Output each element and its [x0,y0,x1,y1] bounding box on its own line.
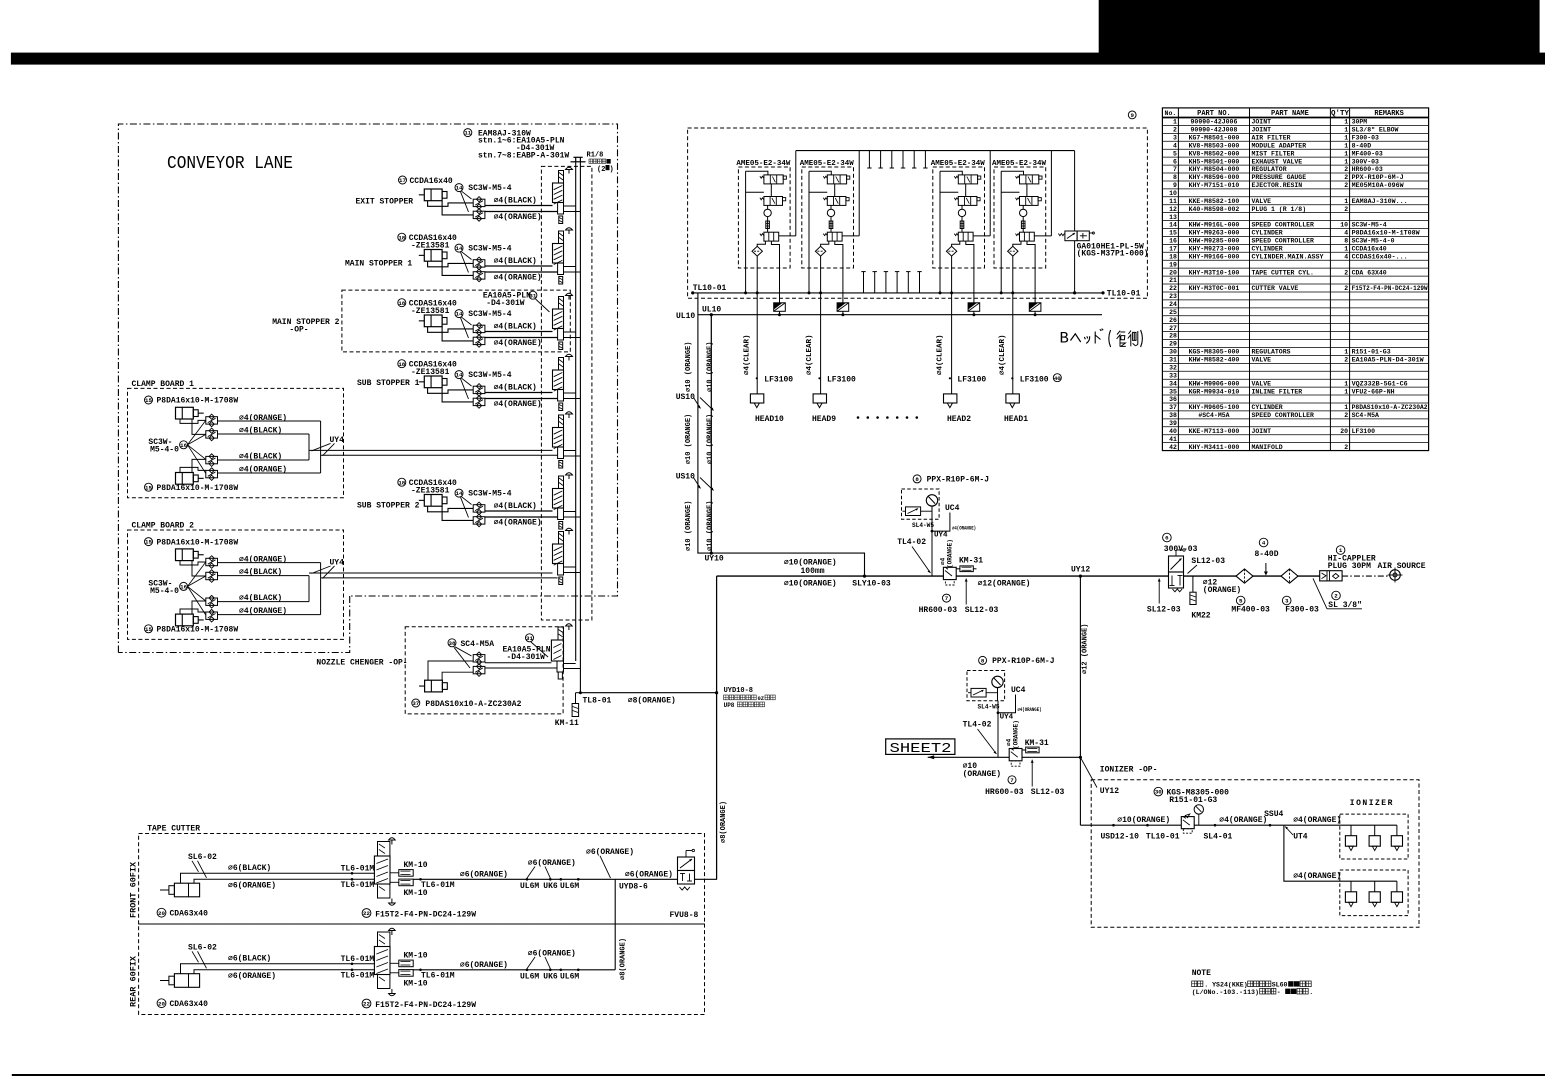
check square silencer [837,303,849,312]
port to supply B [564,572,581,574]
svg-text:40: 40 [1169,428,1177,435]
ejector output to rail riser [1034,235,1051,237]
ejector supply line [1001,171,1023,175]
svg-text:-: - [1277,989,1281,996]
wire UT4 branch down [1284,825,1397,881]
balloon 14 SC3W-M5-4 [455,184,463,192]
clamp cylinder top [176,407,194,419]
svg-text:SC4-M5A: SC4-M5A [461,640,495,649]
svg-text:MANIFOLD: MANIFOLD [1252,444,1283,451]
ejector output to rail riser [779,235,796,237]
svg-text:∅4(ORANGE): ∅4(ORANGE) [494,273,542,282]
ejector AME05-E2-34W dashed box [738,167,790,268]
svg-text:∅4(CLEAR): ∅4(CLEAR) [806,334,814,375]
svg-text:M5-4-0: M5-4-0 [150,445,179,454]
wire #4(ORANGE) [485,398,558,400]
vacuum break valve [764,232,779,241]
cutter valve body [374,947,390,975]
pressure gauge [926,495,937,506]
svg-text:UL10: UL10 [676,312,695,321]
svg-text:24: 24 [1169,301,1177,308]
wire #4(BLACK) bottom [218,459,310,461]
wire vacuum drop to head [1012,256,1014,394]
svg-text:UY10: UY10 [705,555,724,564]
svg-text:31: 31 [1169,357,1177,364]
balloon 7 HR600-03 [943,594,951,602]
svg-text:KM-10: KM-10 [404,889,428,898]
valve lower block [558,564,564,576]
air filter F300-03 [1281,569,1298,583]
svg-text:21: 21 [1169,277,1177,284]
balloon 7 HR600-03 (2) [1008,776,1016,784]
cutter valve lower [378,884,390,898]
svg-text:FVU8-8: FVU8-8 [670,911,699,920]
speed controller pair [473,325,485,332]
svg-text:8-40D: 8-40D [1352,142,1372,149]
svg-text:13: 13 [1169,214,1177,221]
svg-text:JOINT: JOINT [1252,127,1272,134]
svg-text:VALVE: VALVE [1252,198,1272,205]
svg-text:8: 8 [915,476,919,483]
rail riser [795,151,797,236]
clamp board 1 dashed box [128,388,344,497]
svg-text:2: 2 [1344,174,1348,181]
wire #6(BLACK) [205,872,374,874]
svg-text:CYLINDER.MAIN.ASSY: CYLINDER.MAIN.ASSY [1252,253,1324,260]
clamp cylinder port wires [180,419,206,423]
svg-text:3: 3 [1173,134,1177,141]
svg-text:∅4(BLACK): ∅4(BLACK) [239,594,282,603]
check diamond [952,241,960,246]
cylinder P8DAS10x10 (nozzle) [425,680,443,692]
svg-text:1: 1 [1344,119,1348,126]
svg-text:15: 15 [1169,230,1177,237]
speed controller pair [473,260,485,267]
bus UL10 [698,314,1102,316]
svg-text:∅4(ORANGE): ∅4(ORANGE) [494,400,542,409]
svg-text:TL10-01: TL10-01 [1107,289,1141,298]
svg-text:∅10 (ORANGE): ∅10 (ORANGE) [707,414,715,464]
silencer KM-10 a [390,962,399,964]
svg-text:(ORANGE): (ORANGE) [1203,586,1241,595]
svg-text:LF3100: LF3100 [764,375,793,384]
ejector filter [766,221,770,229]
vacuum generator [961,205,963,232]
nozzle valve ports to supply [564,663,576,665]
svg-text:UK6: UK6 [543,972,558,981]
svg-text:CDA 63X40: CDA 63X40 [1352,269,1387,276]
svg-text:AME05-E2-34W: AME05-E2-34W [992,160,1047,168]
svg-text:1: 1 [1344,150,1348,157]
svg-text:KHY-M9166-000: KHY-M9166-000 [1189,253,1240,260]
balloon 11 EAM8AJ-310W label block [464,129,472,137]
ejector AME05-E2-34W dashed box [933,167,985,268]
rail riser [989,151,991,236]
svg-text:1: 1 [1344,388,1348,395]
svg-text:KGR-M9934-010: KGR-M9934-010 [1189,388,1240,395]
wire UY12 diagonal [1080,757,1097,787]
svg-text:2: 2 [1344,206,1348,213]
balloon 14 SC3W-M5-4 [455,310,463,318]
svg-text:TL4-02: TL4-02 [897,538,926,547]
wire #4(BLACK) bottom [218,601,310,603]
svg-text:M5-4-0: M5-4-0 [150,587,179,596]
svg-text:15: 15 [145,539,152,546]
pressure gauge dashed box [902,489,940,519]
wire gauge to bus [931,519,933,576]
svg-text:36: 36 [1169,396,1177,403]
wire #4(ORANGE) [485,271,558,273]
wire UC4 branch [932,513,950,532]
svg-text:US10: US10 [676,393,695,402]
svg-text:MAIN STOPPER 1: MAIN STOPPER 1 [345,260,412,269]
balloon 8 PPX-R10P-6M-J [913,475,921,483]
svg-text:PRESSURE GAUGE: PRESSURE GAUGE [1252,174,1307,181]
svg-text:UL10: UL10 [702,306,721,315]
svg-text:F15T2-F4-PN-DC24-129W: F15T2-F4-PN-DC24-129W [375,910,476,919]
svg-text:): ) [610,166,614,174]
svg-text:HEAD1: HEAD1 [1004,415,1028,424]
svg-text:HR600-03: HR600-03 [985,788,1024,797]
svg-text:-ZE13581: -ZE13581 [411,307,450,316]
svg-text:300V-03: 300V-03 [1164,545,1198,554]
balloon 5 MF400-03 [1236,596,1245,605]
joint LF3100 tick [1011,377,1013,379]
tape cutter cylinder CDA63x40 (front) [174,883,199,897]
svg-text:KM-11: KM-11 [555,719,579,728]
svg-text:. YS24(KKE): . YS24(KKE) [1204,982,1248,989]
svg-text:∅4(BLACK): ∅4(BLACK) [494,257,537,266]
svg-text:R151-01-G3: R151-01-G3 [1352,349,1391,356]
svg-text:∅4(ORANGE): ∅4(ORANGE) [239,607,287,616]
svg-text:SL6-02: SL6-02 [188,943,217,952]
svg-text:AME05-E2-34W: AME05-E2-34W [800,160,855,168]
svg-text:∅10(ORANGE): ∅10(ORANGE) [784,580,837,589]
svg-text:∅8(ORANGE): ∅8(ORANGE) [720,801,728,843]
svg-text:SC4-M5A: SC4-M5A [1352,412,1379,419]
wire #4(BLACK) [485,205,553,207]
svg-text:-D4-301W: -D4-301W [507,653,546,662]
cylinder port wires [428,388,474,394]
svg-text:SPEED CONTROLLER: SPEED CONTROLLER [1252,412,1315,419]
head nozzle HEAD9 [813,394,826,403]
KM-11 silencer [576,692,581,694]
svg-text:6: 6 [1165,535,1169,542]
svg-text:∅4(ORANGE): ∅4(ORANGE) [239,414,287,423]
wire UY10 drop from TL10-01 [698,293,865,576]
svg-text:∅4(BLACK): ∅4(BLACK) [494,323,537,332]
svg-text:SPEED CONTROLLER: SPEED CONTROLLER [1252,238,1315,245]
svg-text:KHY-M9263-000: KHY-M9263-000 [1189,230,1240,237]
svg-text:∅6(ORANGE): ∅6(ORANGE) [625,871,673,880]
svg-text:14: 14 [1169,222,1177,229]
svg-text:∅10 (ORANGE): ∅10 (ORANGE) [707,342,715,392]
svg-text:∅10 (ORANGE): ∅10 (ORANGE) [707,501,715,551]
svg-text:CCDA16x40: CCDA16x40 [410,177,453,186]
supply line A [575,162,577,662]
svg-text:4: 4 [1344,230,1348,237]
ejector supply valve [1020,175,1039,184]
wire vacuum drop to head [951,256,953,394]
svg-text:∅6(ORANGE): ∅6(ORANGE) [228,972,276,981]
svg-text:18: 18 [398,234,405,241]
valve exhaust [559,342,563,350]
wire joins [308,434,310,460]
svg-text:KHY-M3T10-100: KHY-M3T10-100 [1189,269,1240,276]
svg-text:∅4(BLACK): ∅4(BLACK) [494,197,537,206]
svg-text:5: 5 [1173,150,1177,157]
svg-text:14: 14 [456,490,463,497]
clamp cylinder bottom [176,473,194,485]
ejector AME05-E2-34W dashed box [802,167,854,268]
wire #8(ORANGE) main drop [716,693,718,880]
svg-text:1: 1 [1173,119,1177,126]
svg-text:20: 20 [1169,269,1177,276]
svg-text:∅4(CLEAR): ∅4(CLEAR) [999,334,1007,375]
svg-text:KHY-M8504-000: KHY-M8504-000 [1189,166,1240,173]
valve exhaust [559,403,563,411]
svg-text:5: 5 [1239,598,1243,605]
svg-text:SC3W-M5-4: SC3W-M5-4 [468,371,511,380]
svg-text:37: 37 [412,700,419,707]
wire #4(BLACK) [485,392,553,394]
sheet reference SHEET2 [886,739,955,755]
cylinder port wires [181,964,206,974]
svg-text:KM-31: KM-31 [959,557,983,566]
valve pilot [559,358,564,371]
svg-text:Q'TY: Q'TY [1331,110,1350,118]
svg-text:CCDA16x40: CCDA16x40 [1352,246,1387,253]
joint LF3100 tick [818,377,820,379]
wire exhaust drop [966,241,974,303]
svg-text:7: 7 [1010,777,1014,784]
svg-text:38: 38 [449,640,456,647]
svg-text:90990-42J006: 90990-42J006 [1191,119,1238,126]
port to supply A [564,511,576,513]
svg-text:ME05M10A-096W: ME05M10A-096W [1352,182,1404,189]
svg-text:MF400-03: MF400-03 [1352,150,1383,157]
svg-text:∅4(BLACK): ∅4(BLACK) [239,453,282,462]
valve station V1 body [553,183,564,203]
wire vacuum drop to head [756,256,758,394]
air source symbol [1390,570,1401,581]
svg-text:EXIT STOPPER: EXIT STOPPER [356,198,414,207]
svg-text:19: 19 [1169,261,1177,268]
ejector supply line [940,171,962,175]
svg-text:KHY-M3T0C-001: KHY-M3T0C-001 [1189,285,1240,292]
manual override cap [568,475,570,479]
svg-text:42: 42 [1169,444,1177,451]
svg-text:∅6(ORANGE): ∅6(ORANGE) [228,881,276,890]
svg-text:8: 8 [981,657,985,664]
svg-text:AIR FILTER: AIR FILTER [1252,134,1291,141]
svg-text:TL6-01M: TL6-01M [341,881,375,890]
svg-text:90990-42J008: 90990-42J008 [1191,127,1238,134]
svg-text:NOTE: NOTE [1192,969,1211,978]
balloon 3 F300-03 [1282,596,1291,605]
wire #12 drop to ionizer [1079,757,1081,825]
wire #6(BLACK) [205,963,374,965]
svg-text:VALVE: VALVE [1252,380,1272,387]
balloon 15 P8DA16x10-M-1708W (top) [145,396,153,404]
svg-text:.: . [1309,989,1313,996]
speed controllers bottom pair [206,456,218,463]
valve lower block [558,508,564,520]
head nozzle HEAD2 [944,394,957,403]
balloon 38 SC4-M5A [448,639,456,647]
svg-text:∅4(ORANGE): ∅4(ORANGE) [239,466,287,475]
svg-text:300V-03: 300V-03 [1352,158,1379,165]
head manifold outer dashed box [688,128,1148,298]
svg-text:14: 14 [456,372,463,379]
svg-text:KHY-M9605-100: KHY-M9605-100 [1189,404,1240,411]
svg-text:stn.7~8:EABP-A-301W: stn.7~8:EABP-A-301W [478,151,569,160]
svg-text:17: 17 [1169,246,1177,253]
vacuum break valve [958,232,973,241]
svg-text:FRONT 60FIX: FRONT 60FIX [129,861,139,918]
svg-text:SLY10-03: SLY10-03 [852,580,891,589]
balloon 18 CCDAS16x40-ZE13581 [398,360,406,368]
port to supply B [564,516,581,518]
clamp cylinder port wires [180,561,206,565]
svg-text:39: 39 [1169,420,1177,427]
speed controllers top pair [206,558,218,565]
svg-text:UY4: UY4 [1000,714,1014,722]
nozzle changer dashed box [405,627,563,714]
port to supply B [564,455,581,457]
balloon 15 P8DA16x10-M-1708W (top) [145,538,153,546]
ejector supply line [809,171,831,175]
tape cutter output wire [413,878,717,880]
svg-text:12: 12 [1169,206,1177,213]
balloon 6 exhaust valve 300V-03 [1163,533,1172,542]
svg-text:P8DA16x10-M-1708W: P8DA16x10-M-1708W [157,626,239,635]
balloon 14 SC3W-M5-4 [455,371,463,379]
svg-text:23: 23 [1169,293,1177,300]
svg-text:∅4(ORANGE): ∅4(ORANGE) [494,518,542,527]
balloon 18 CCDAS16x40-ZE13581 [398,478,406,486]
cylinder SUB STOPPER 2 [424,495,442,507]
supply line B [579,162,581,693]
cylinder MAIN STOPPER 1 [424,250,442,262]
svg-text:20: 20 [1340,428,1348,435]
svg-text:10: 10 [1340,222,1348,229]
cylinder port wires [428,327,474,333]
svg-text:KV8-M8502-000: KV8-M8502-000 [1189,150,1240,157]
coupler plug [1320,571,1342,581]
balloon 37 P8DAS10x10-A-ZC230A2 [412,699,420,707]
svg-text:15: 15 [145,397,152,404]
svg-text:1: 1 [1344,380,1348,387]
svg-text:22: 22 [363,1001,370,1008]
svg-text:IONIZER -OP-: IONIZER -OP- [1100,766,1158,775]
valve station V6 body [553,489,564,509]
svg-text:2: 2 [1173,127,1177,134]
clamp board 2 dashed box [128,530,344,639]
note text line1 [1192,981,1197,987]
ejector output to rail riser [973,235,990,237]
balloon 1 HI-CAPPLER [1336,546,1345,555]
manual override cap [568,230,570,234]
svg-text:PLUG 30PM: PLUG 30PM [1328,562,1371,571]
svg-text:30: 30 [1169,349,1177,356]
svg-text:CYLINDER: CYLINDER [1252,246,1283,253]
svg-text:20: 20 [158,910,165,917]
balloon 22 F15T2 rear [362,999,371,1008]
svg-text:LF3100: LF3100 [957,375,986,384]
balloon 9 near table [1128,111,1136,119]
svg-text:22: 22 [363,910,370,917]
svg-text:SC3W-M5-4: SC3W-M5-4 [468,310,511,319]
svg-text:4: 4 [1262,540,1266,547]
main bus #10 [717,575,1320,577]
valve pilot [559,297,564,310]
svg-text:SL4-01: SL4-01 [1204,833,1233,842]
ejector filter [829,221,833,229]
svg-text:SC3W-M5-4: SC3W-M5-4 [468,184,511,193]
ellipsis dots between heads [857,416,860,419]
tape cutter front dashed box [139,834,705,925]
svg-text:1: 1 [1344,142,1348,149]
wire UY4 pair to valves [309,572,553,574]
balloon 18 CCDAS16x40-ZE13581 [398,299,406,307]
svg-text:PPX-R10P-6M-J: PPX-R10P-6M-J [927,476,989,485]
svg-text:UYD8-6: UYD8-6 [619,883,648,892]
svg-text:SL60: SL60 [1272,982,1288,989]
svg-text:KKE-M7113-000: KKE-M7113-000 [1189,428,1240,435]
bus continuation ticks (bottom) [863,272,865,293]
joint LF3100 tick [756,377,758,379]
svg-text:8: 8 [1344,238,1348,245]
cylinder EXIT STOPPER [424,189,442,201]
svg-text:UC4: UC4 [1011,686,1026,695]
cutter valve pilot [378,842,390,857]
svg-text:32: 32 [1169,364,1177,371]
svg-text:SL12-03: SL12-03 [1031,788,1065,797]
svg-text:LF3100: LF3100 [827,375,856,384]
svg-text:2: 2 [1344,182,1348,189]
svg-text:3: 3 [1285,598,1289,605]
svg-text:41: 41 [1169,436,1177,443]
check diamond [821,241,829,246]
svg-text:16: 16 [1169,238,1177,245]
svg-text:SL12-03: SL12-03 [1147,606,1181,615]
balloon 14 SC3W-M5-4 [455,244,463,252]
head nozzle HEAD1 [1006,394,1019,403]
cylinder port wires [428,201,474,207]
speed controller pair [473,386,485,393]
supply rail [796,150,1075,152]
svg-text:TL10-01: TL10-01 [693,284,727,293]
svg-text:∅4(BLACK): ∅4(BLACK) [494,384,537,393]
svg-text:∅12(ORANGE): ∅12(ORANGE) [978,580,1031,589]
valve lower block [558,447,564,459]
balloon 31 EA10A5-PLN-D4-301W (nozzle) [526,634,534,642]
silencer KM-10 b [390,881,399,883]
svg-text:TL6-01M: TL6-01M [341,955,375,964]
silencer KM-10 b [390,972,399,974]
wire joins [308,576,310,602]
svg-text:30: 30 [1155,789,1162,796]
svg-text:KHW-M8582-400: KHW-M8582-400 [1189,357,1240,364]
wire #6(ORANGE) [210,878,374,880]
svg-text:11: 11 [1169,198,1177,205]
valve station V7 body [553,544,564,564]
rail continuation ticks (top) [868,151,870,168]
wire #4(ORANGE) top [218,420,321,422]
wire #4(ORANGE) [485,516,558,518]
svg-text:15: 15 [145,626,152,633]
